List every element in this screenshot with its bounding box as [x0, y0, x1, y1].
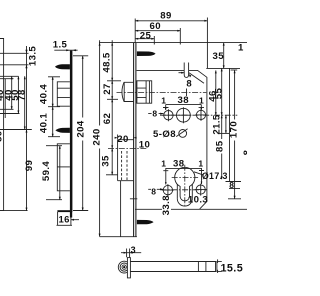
svg-text:85: 85	[215, 140, 226, 152]
svg-text:59.4: 59.4	[41, 161, 52, 182]
svg-text:38: 38	[173, 159, 185, 170]
svg-text:35: 35	[213, 51, 225, 62]
svg-text:1: 1	[161, 159, 166, 169]
svg-text:33.8: 33.8	[161, 195, 172, 216]
svg-text:1: 1	[161, 96, 166, 106]
svg-text:89: 89	[160, 11, 171, 22]
svg-text:204: 204	[76, 120, 87, 137]
svg-text:8: 8	[152, 109, 157, 119]
svg-text:1: 1	[238, 43, 244, 54]
svg-text:8: 8	[186, 78, 192, 89]
svg-text:40.1: 40.1	[39, 113, 50, 134]
svg-text:16: 16	[59, 215, 70, 226]
svg-text:60: 60	[150, 21, 161, 32]
svg-text:21.5: 21.5	[212, 114, 223, 135]
svg-text:48.5: 48.5	[101, 52, 112, 73]
svg-text:10.3: 10.3	[188, 195, 208, 206]
svg-text:13.5: 13.5	[28, 46, 39, 67]
svg-text:240: 240	[91, 128, 102, 145]
svg-text:1: 1	[199, 96, 204, 106]
svg-text:8: 8	[151, 186, 156, 196]
svg-text:8: 8	[229, 180, 234, 190]
svg-text:10: 10	[139, 140, 150, 151]
svg-text:55: 55	[214, 88, 225, 100]
svg-text:99: 99	[24, 160, 35, 171]
svg-text:1: 1	[198, 159, 203, 169]
svg-text:3: 3	[131, 245, 136, 255]
svg-text:Ø17.3: Ø17.3	[202, 171, 228, 181]
svg-text:78: 78	[17, 89, 28, 101]
svg-text:50: 50	[0, 130, 5, 141]
svg-text:27: 27	[102, 83, 113, 94]
svg-text:170: 170	[228, 121, 239, 138]
svg-text:20: 20	[117, 134, 128, 145]
svg-text:15.5: 15.5	[220, 262, 243, 274]
svg-text:8: 8	[242, 149, 247, 155]
svg-text:35: 35	[101, 155, 112, 167]
svg-text:62: 62	[102, 113, 113, 124]
svg-text:38: 38	[178, 95, 190, 106]
svg-text:5-Ø8: 5-Ø8	[153, 129, 176, 140]
svg-text:25: 25	[140, 30, 152, 41]
svg-text:40.4: 40.4	[39, 84, 50, 105]
svg-text:1.5: 1.5	[53, 40, 68, 51]
